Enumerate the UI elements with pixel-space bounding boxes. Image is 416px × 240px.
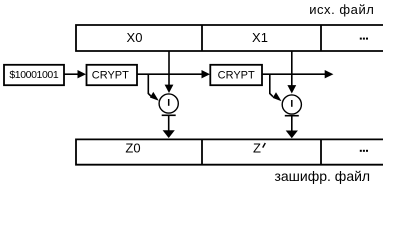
wire: X0 down to XOR1 xyxy=(168,51,170,85)
IV box $10001001 xyxy=(4,65,64,85)
XOR1 bottom crossbar xyxy=(162,114,176,116)
svg-text:Z0: Z0 xyxy=(125,140,140,155)
svg-text:Z: Z xyxy=(253,140,261,155)
arrowhead into Z0 xyxy=(163,130,175,138)
XOR1 plus tick xyxy=(168,99,170,106)
cell label ... (top) xyxy=(360,38,368,40)
prime mark of Z' xyxy=(263,143,266,148)
wire: IV box to CRYPT1 xyxy=(64,73,78,75)
CRYPT1 box xyxy=(87,65,138,85)
arrowhead into XOR1 left xyxy=(150,92,159,101)
branch wire down to XOR2 xyxy=(270,74,273,97)
arrowhead into CRYPT1 xyxy=(78,70,87,78)
wire: CRYPT2 output to next stage xyxy=(262,73,325,75)
svg-text:CRYPT: CRYPT xyxy=(218,69,255,81)
XOR circle 1 xyxy=(159,94,178,113)
cell label ... (bottom) xyxy=(360,150,368,152)
bottom bar (encrypted file), open right end xyxy=(76,139,383,164)
XOR2 bottom crossbar xyxy=(285,115,299,117)
arrowhead into XOR2 left xyxy=(273,92,282,101)
bottom bar divider 1 xyxy=(201,139,203,164)
svg-text:X1: X1 xyxy=(252,30,268,45)
top bar divider 2 xyxy=(320,25,322,51)
wire: XOR1 down to Z0 xyxy=(168,115,170,131)
CRYPT2 box xyxy=(210,65,262,85)
svg-text:X0: X0 xyxy=(127,30,143,45)
arrowhead into XOR1 top xyxy=(165,85,174,93)
arrowhead continuation right xyxy=(325,70,334,78)
wire: X1 down to XOR2 xyxy=(291,51,293,86)
bottom bar divider 2 xyxy=(320,139,322,164)
top bar (source file), open right end xyxy=(76,25,383,51)
svg-text:зашифр. файл: зашифр. файл xyxy=(274,168,370,184)
svg-text:исх. файл: исх. файл xyxy=(309,2,374,17)
arrowhead into XOR2 top xyxy=(287,85,296,93)
wire: XOR2 down to Z1 xyxy=(291,116,293,131)
arrowhead into CRYPT2 xyxy=(202,70,211,78)
branch wire down to XOR1 xyxy=(148,74,151,96)
XOR circle 2 xyxy=(282,95,301,114)
wire: CRYPT1 output to CRYPT2 xyxy=(137,73,202,75)
svg-text:$10001001: $10001001 xyxy=(9,69,59,81)
XOR2 plus tick xyxy=(291,100,293,107)
top bar divider 1 xyxy=(201,25,203,51)
arrowhead into Z1 xyxy=(286,131,298,139)
svg-text:CRYPT: CRYPT xyxy=(92,69,129,81)
